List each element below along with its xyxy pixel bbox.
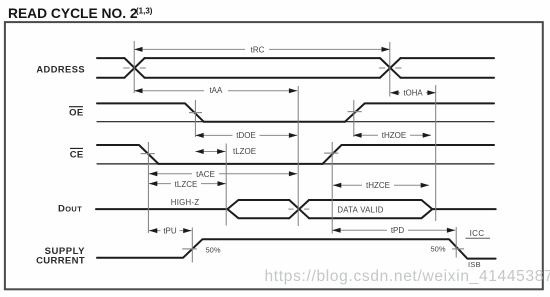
vertical guide x=226.2 (Dout low-Z point) (225, 144, 227, 226)
svg-text:CE: CE (70, 149, 84, 160)
svg-text:tLZOE: tLZOE (233, 147, 256, 156)
svg-text:OE: OE (69, 108, 83, 119)
vertical guide x=192.3 (supply rise mid) (191, 228, 193, 263)
svg-text:tACE: tACE (196, 170, 215, 179)
svg-text:tHZCE: tHZCE (366, 181, 390, 190)
DOUT label (58, 203, 82, 214)
svg-text:tPU: tPU (163, 227, 177, 236)
vertical guide x=456.2 (supply fall mid) (455, 227, 457, 258)
svg-text:50%: 50% (206, 245, 221, 254)
svg-text:DATA VALID: DATA VALID (337, 205, 383, 214)
svg-text:(1,3): (1,3) (136, 7, 153, 16)
vertical guide x=390 (address change 2) (389, 42, 391, 97)
svg-text:tDOE: tDOE (236, 131, 256, 140)
dimension tHZOE (353, 130, 431, 140)
svg-text:tPD: tPD (391, 226, 405, 235)
title READ CYCLE NO. 2 (8, 6, 153, 21)
SUPPLY CURRENT waveform (97, 239, 496, 258)
dimension tOHA (390, 88, 436, 97)
dimension tHZCE (333, 180, 429, 190)
svg-text:tOHA: tOHA (403, 88, 423, 97)
svg-text:READ CYCLE NO. 2: READ CYCLE NO. 2 (8, 6, 138, 21)
dimension tACE (149, 169, 297, 179)
ADDRESS label (36, 65, 85, 75)
svg-text:ADDRESS: ADDRESS (36, 65, 85, 75)
dimension tPU (149, 226, 192, 236)
OE waveform (97, 103, 494, 121)
svg-text:HIGH-Z: HIGH-Z (171, 198, 200, 207)
vertical guide x=353.8 (OE rise mid) (353, 100, 355, 137)
svg-text:50%: 50% (430, 245, 445, 254)
svg-text:D: D (58, 203, 65, 214)
CE waveform (97, 145, 494, 164)
OE label with overline (69, 107, 84, 119)
dimension tLZCE (149, 179, 226, 189)
svg-text:tAA: tAA (209, 86, 223, 95)
vertical guide x=435.7 (data hold / high-Z end) (435, 85, 437, 221)
ICC label (466, 229, 491, 238)
dimension tPD (332, 225, 455, 235)
svg-text:CURRENT: CURRENT (36, 255, 85, 266)
dimension tDOE (195, 130, 297, 140)
dimension tAA (134, 86, 297, 96)
svg-text:tLZCE: tLZCE (175, 180, 198, 189)
DOUT waveform (high-Z line, invalid bus, X, data valid bus) (96, 200, 496, 218)
CE label with overline (70, 148, 84, 160)
svg-text:OUT: OUT (65, 204, 82, 213)
vertical guide x=134 (address change) (133, 41, 135, 93)
svg-text:ICC: ICC (470, 229, 485, 238)
DOUT X center reference dashes (288, 208, 309, 210)
dimension tRC (134, 44, 390, 54)
vertical guide x=298.2 (data valid start) (297, 86, 299, 226)
svg-text:tHZOE: tHZOE (382, 131, 406, 140)
supply 50% ticks (182, 248, 464, 250)
svg-text:https://blog.csdn.net/weixin_4: https://blog.csdn.net/weixin_41445387 (265, 268, 550, 285)
CE edge 50% ticks (141, 152, 339, 155)
svg-text:tRC: tRC (251, 45, 265, 54)
vertical guide x=148.4 (CE fall mid) (147, 142, 149, 233)
dimension tLZOE (195, 147, 256, 156)
vertical guide x=195.4 (OE fall mid) (194, 100, 196, 137)
ADDRESS X center reference dashes (123, 67, 401, 69)
SUPPLY CURRENT label (36, 246, 85, 266)
ADDRESS waveform (bus band with X transitions) (97, 58, 494, 78)
vertical guide x=332.2 (CE rise mid) (331, 142, 333, 234)
OE edge 50% ticks (189, 112, 362, 113)
